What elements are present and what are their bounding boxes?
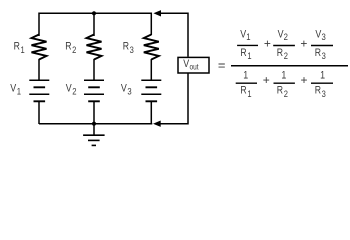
svg-text:V: V (183, 58, 189, 70)
svg-text:3: 3 (127, 86, 132, 97)
svg-text:+: + (300, 37, 307, 51)
svg-text:R: R (65, 41, 71, 53)
arrowhead top (points left at top node) (153, 10, 161, 16)
svg-text:1: 1 (246, 31, 251, 42)
svg-text:2: 2 (284, 88, 288, 99)
svg-text:R: R (315, 85, 321, 97)
node top junction dot (92, 11, 96, 15)
label R1 (14, 41, 25, 55)
numerator fraction V1/R1 (237, 29, 258, 62)
battery V1 (29, 80, 49, 101)
Vout box (178, 57, 209, 73)
arrowhead bottom (points left at bottom node) (153, 121, 161, 127)
svg-text:R: R (315, 47, 321, 59)
svg-text:+: + (301, 73, 308, 87)
svg-text:out: out (190, 62, 199, 72)
svg-text:3: 3 (322, 88, 326, 99)
svg-text:+: + (263, 73, 270, 87)
svg-text:2: 2 (284, 31, 289, 42)
numerator fraction V3/R3 (311, 29, 333, 62)
svg-text:1: 1 (320, 70, 325, 82)
svg-text:V: V (10, 83, 16, 95)
svg-text:1: 1 (17, 86, 22, 97)
wire V1 to bottom rail (38, 101, 40, 124)
denominator fraction 1/R3 (311, 70, 333, 99)
svg-text:R: R (277, 85, 283, 97)
svg-text:=: = (218, 57, 226, 72)
plus denominator 2 (301, 73, 308, 87)
svg-text:+: + (264, 37, 271, 51)
svg-text:R: R (240, 85, 246, 97)
equals sign (218, 57, 226, 72)
svg-text:2: 2 (284, 50, 288, 61)
svg-text:V: V (66, 83, 72, 95)
svg-text:1: 1 (20, 44, 24, 55)
wire middle branch top (93, 13, 95, 36)
svg-text:3: 3 (321, 31, 326, 42)
label R2 (65, 41, 76, 55)
node bottom junction dot (92, 122, 96, 126)
denominator fraction 1/R1 (236, 70, 257, 99)
svg-text:R: R (277, 47, 283, 59)
label R3 (123, 41, 134, 55)
denominator fraction 1/R2 (274, 70, 295, 99)
plus numerator 1 (264, 37, 271, 51)
plus numerator 2 (300, 37, 307, 51)
wire R3 to V3 (150, 59, 152, 80)
resistor R2 (87, 35, 102, 60)
svg-text:2: 2 (72, 44, 76, 55)
wire V3 to bottom rail (150, 101, 152, 124)
svg-text:1: 1 (281, 70, 286, 82)
label Vout (183, 58, 198, 71)
resistor R1 (32, 35, 47, 60)
main fraction bar (231, 65, 348, 67)
wire V2 to bottom rail (93, 101, 95, 124)
numerator fraction V2/R2 (273, 29, 295, 62)
svg-text:1: 1 (247, 50, 251, 61)
svg-text:R: R (14, 41, 20, 53)
wire bottom rail (39, 123, 152, 125)
svg-text:1: 1 (247, 88, 251, 99)
wire top rail (39, 13, 151, 36)
svg-text:R: R (240, 47, 246, 59)
label V3 (121, 83, 132, 97)
svg-text:V: V (121, 83, 127, 95)
battery V3 (141, 80, 161, 101)
label V2 (66, 83, 77, 97)
svg-text:R: R (123, 41, 129, 53)
svg-text:2: 2 (72, 86, 77, 97)
wire Vout sense bottom (160, 74, 188, 124)
wire Vout sense top (161, 13, 189, 57)
svg-text:3: 3 (130, 44, 134, 55)
wire R2 to V2 (93, 59, 95, 80)
resistor R3 (144, 35, 159, 60)
svg-text:3: 3 (322, 50, 326, 61)
battery V2 (84, 80, 104, 101)
svg-text:1: 1 (243, 70, 248, 82)
plus denominator 1 (263, 73, 270, 87)
wire R1 to V1 (38, 59, 40, 80)
ground (83, 124, 105, 146)
label V1 (10, 83, 21, 97)
